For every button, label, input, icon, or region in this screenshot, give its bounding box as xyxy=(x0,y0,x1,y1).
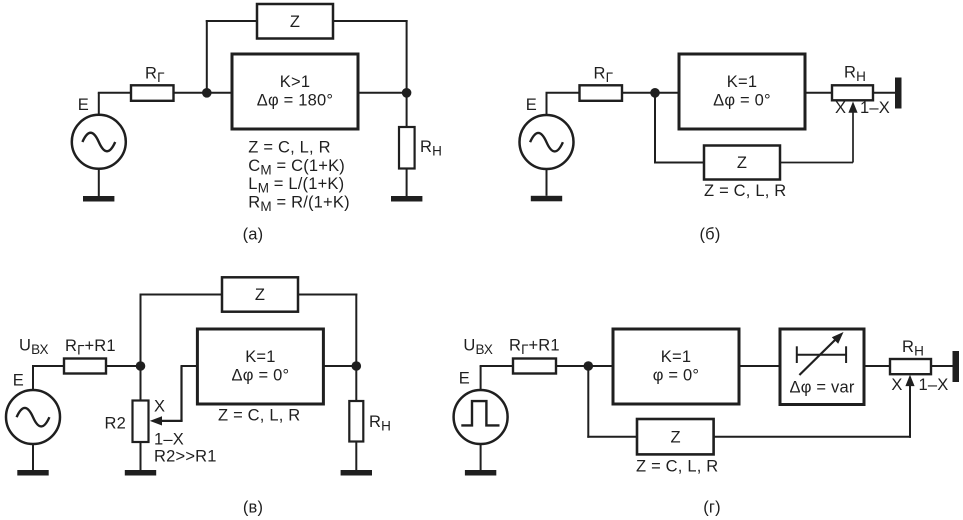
svg-text:(б): (б) xyxy=(699,226,720,244)
resistor RG+R1 (v) xyxy=(64,359,106,374)
wire down to output node (a) xyxy=(406,20,408,127)
resistor RG (a) xyxy=(131,85,174,101)
potentiometer RH (b) xyxy=(832,85,873,100)
svg-text:E: E xyxy=(13,371,24,389)
amplifier U2 (b) xyxy=(679,54,805,129)
wire E3 to ground (v) xyxy=(32,444,34,470)
svg-text:(г): (г) xyxy=(703,499,721,517)
resistor RG (b) xyxy=(580,85,623,101)
svg-text:RГ+R1: RГ+R1 xyxy=(509,337,560,358)
wiper arrow (v) xyxy=(150,416,162,425)
svg-text:K=1: K=1 xyxy=(661,348,691,366)
wire to Z left (b) xyxy=(654,162,704,164)
svg-text:Δφ = 0°: Δφ = 0° xyxy=(232,366,290,384)
wire RG to amp (a) xyxy=(174,92,233,94)
wire amp input from wiper (v) xyxy=(160,366,197,421)
amplifier U3 (v) xyxy=(197,329,323,404)
wire E2 to RG (b) xyxy=(546,92,580,94)
wire down to output node (v) xyxy=(355,294,357,402)
wire Z right (a) xyxy=(333,20,408,22)
impedance Z block (b) xyxy=(704,146,780,180)
svg-text:Z = C, L, R: Z = C, L, R xyxy=(248,138,330,156)
svg-text:X: X xyxy=(154,398,165,416)
svg-text:(в): (в) xyxy=(243,499,263,517)
svg-text:Z: Z xyxy=(290,13,300,31)
node output (v) xyxy=(352,361,362,371)
wiper arrow (g) xyxy=(905,375,914,438)
impedance Z block (g) xyxy=(637,419,714,454)
svg-text:R2: R2 xyxy=(105,415,127,433)
svg-text:E: E xyxy=(459,370,470,388)
svg-text:RГ+R1: RГ+R1 xyxy=(65,337,116,358)
svg-text:Z: Z xyxy=(670,429,680,447)
terminal bar (b) xyxy=(895,78,902,109)
ground under RH (v) xyxy=(341,470,372,476)
wire to Z left (a) xyxy=(206,20,257,22)
svg-text:E: E xyxy=(78,96,89,114)
wiper arrow (b) xyxy=(848,102,857,163)
ground under RH (a) xyxy=(391,196,422,202)
wire Z to wiper (g) xyxy=(714,436,911,438)
wire node to R2 (v) xyxy=(140,366,142,401)
wire phase shifter to RH pot (g) xyxy=(864,365,890,367)
resistor RH (a) xyxy=(399,127,415,169)
source E1 (sine generator) xyxy=(72,115,126,169)
wire E4 top xyxy=(480,366,482,390)
source E2 (sine generator) xyxy=(520,115,574,169)
wire E2 top xyxy=(546,93,548,115)
phase shifter block (g) xyxy=(780,329,864,405)
amplifier U4 (g) xyxy=(613,329,739,404)
ground under E3 (v) xyxy=(17,470,48,476)
ground under E4 (g) xyxy=(465,470,496,476)
svg-text:(а): (а) xyxy=(243,226,264,244)
wire pot to terminal (g) xyxy=(931,365,953,367)
svg-text:Z: Z xyxy=(255,286,265,304)
wire E3 top xyxy=(32,366,34,390)
wire amp to phase shifter (g) xyxy=(739,365,780,367)
svg-text:Z = C, L, R: Z = C, L, R xyxy=(704,182,786,200)
resistor RH (v) xyxy=(349,401,363,442)
wire to Z left (g) xyxy=(587,436,637,438)
svg-text:Δφ = var: Δφ = var xyxy=(789,379,854,397)
potentiometer R2 (v) xyxy=(133,401,149,443)
svg-text:1–X: 1–X xyxy=(860,99,890,117)
impedance Z block (v) xyxy=(222,277,298,311)
svg-text:Δφ = 180°: Δφ = 180° xyxy=(257,91,333,109)
wire amp to RH pot (b) xyxy=(805,92,832,94)
impedance Z block (a) xyxy=(257,4,333,39)
svg-text:X: X xyxy=(891,376,902,394)
ground under R2 (v) xyxy=(125,470,156,476)
svg-text:R2>>R1: R2>>R1 xyxy=(154,448,217,466)
ground under E2 (b) xyxy=(531,196,562,202)
wire E4 to R1 (g) xyxy=(480,365,513,367)
svg-text:K=1: K=1 xyxy=(245,348,275,366)
ground under E1 (a) xyxy=(83,196,114,202)
wire R1 to node (v) xyxy=(106,365,141,367)
wire node up (v) xyxy=(140,294,142,367)
wire E1 to RG xyxy=(98,92,131,94)
wire RH to ground (a) xyxy=(406,169,408,197)
svg-text:Z = C, L, R: Z = C, L, R xyxy=(636,458,718,476)
svg-text:1–X: 1–X xyxy=(154,431,184,449)
wire E1 top xyxy=(98,93,100,115)
wire node up (a) xyxy=(206,20,208,93)
svg-text:Z = C, L, R: Z = C, L, R xyxy=(218,407,300,425)
wire R1 to amp (g) xyxy=(556,365,613,367)
wire RH to ground (v) xyxy=(355,442,357,471)
svg-text:Δφ = 0°: Δφ = 0° xyxy=(713,91,771,109)
wire R2 to ground (v) xyxy=(140,442,142,470)
node input (v) xyxy=(136,361,146,371)
wire to Z left (v) xyxy=(140,294,223,296)
svg-text:Z: Z xyxy=(737,154,747,172)
amplifier U1 (a) xyxy=(232,54,358,129)
formula text (a) xyxy=(248,138,349,214)
wire node down (g) xyxy=(587,366,589,438)
potentiometer RH (g) xyxy=(890,359,931,374)
wire amp out (a) xyxy=(358,92,407,94)
svg-text:K>1: K>1 xyxy=(280,73,310,91)
wire E4 to ground (g) xyxy=(480,444,482,470)
resistor RG+R1 (g) xyxy=(513,359,556,374)
source E4 (pulse generator) xyxy=(454,390,508,444)
wire amp out (v) xyxy=(323,365,356,367)
wire Z to wiper (b) xyxy=(780,162,853,164)
terminal bar (g) xyxy=(953,351,960,382)
svg-text:K=1: K=1 xyxy=(727,73,757,91)
svg-text:E: E xyxy=(526,96,537,114)
wire RG to amp (b) xyxy=(622,92,679,94)
wire E2 to ground (b) xyxy=(546,169,548,196)
node input (b) xyxy=(650,88,660,98)
wire E1 to ground (a) xyxy=(98,169,100,196)
svg-text:X: X xyxy=(835,99,846,117)
node output (a) xyxy=(402,88,412,98)
wire Z right (v) xyxy=(298,294,357,296)
node input (g) xyxy=(584,361,594,371)
wire pot to terminal (b) xyxy=(873,92,895,94)
source E3 (sine generator) xyxy=(6,390,60,444)
wire node down (b) xyxy=(654,93,656,164)
node input (a) xyxy=(202,88,212,98)
svg-text:φ = 0°: φ = 0° xyxy=(653,366,699,384)
wire E3 to R1 (v) xyxy=(32,365,64,367)
svg-text:1–X: 1–X xyxy=(919,376,949,394)
